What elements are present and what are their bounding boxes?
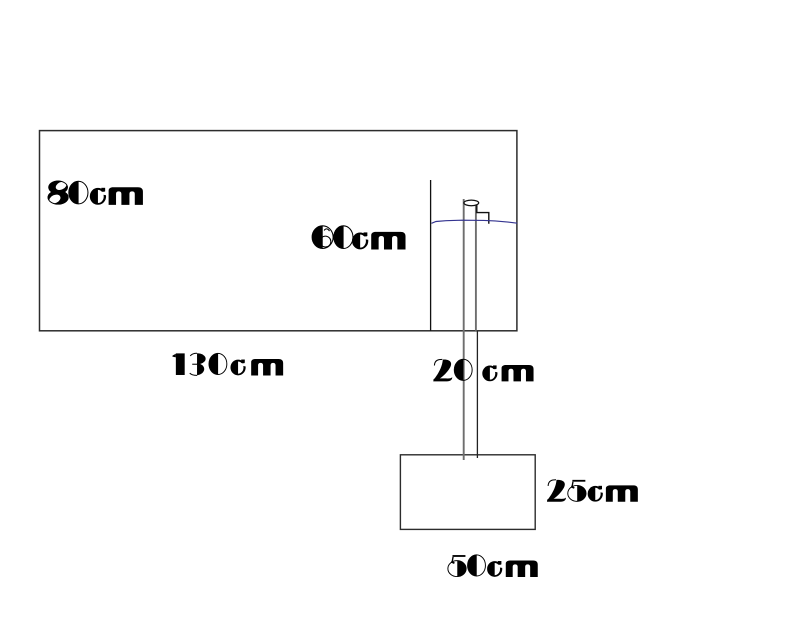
label 80cm xyxy=(48,180,143,205)
inner compartment wall xyxy=(430,180,432,331)
label 20 cm xyxy=(433,359,533,381)
pipe right wall lower (black) xyxy=(476,331,478,458)
label 60cm xyxy=(312,226,405,250)
water line (blue) xyxy=(432,220,518,223)
pipe left wall (gray) xyxy=(463,199,465,460)
bracket step xyxy=(477,205,489,224)
tank rectangle 130x80 xyxy=(40,131,517,331)
label 25cm xyxy=(547,480,638,502)
pipe right wall upper (gray) xyxy=(475,204,477,331)
label 50cm xyxy=(448,555,538,577)
pipe mouth ellipse xyxy=(464,200,479,206)
box rectangle 50x25 xyxy=(400,455,535,530)
label 130cm xyxy=(172,353,283,375)
